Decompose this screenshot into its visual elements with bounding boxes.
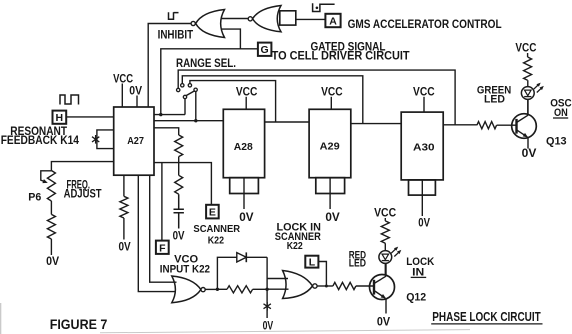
wire main bus A27 to A28 <box>154 120 223 122</box>
wire to 0V (P6 chain) <box>50 239 52 255</box>
wire L to U4 output line <box>318 262 328 288</box>
wire A27 bottom pin to resistor <box>123 175 125 196</box>
wire U3 output to junction <box>205 288 219 291</box>
svg-text:VCC: VCC <box>515 43 536 55</box>
svg-text:0V: 0V <box>239 212 254 224</box>
0V label above A27 <box>129 85 142 107</box>
text FREQ. <box>67 180 91 192</box>
connector G box <box>258 43 272 57</box>
text IN underlined <box>411 266 427 278</box>
faint scan streak left edge <box>0 303 2 334</box>
text RED <box>349 249 366 261</box>
text SCANNER <box>193 223 240 235</box>
svg-text:0V: 0V <box>129 85 142 97</box>
text LED (green) <box>484 94 505 106</box>
wire U1 output to A27 top pin <box>148 24 191 108</box>
0V label (Q13 emitter) <box>522 148 537 160</box>
text P6 <box>28 192 41 204</box>
IC A29 <box>309 109 351 177</box>
text INHIBIT <box>158 28 194 42</box>
wire diode to 0V column <box>246 257 268 318</box>
0V label (A28) <box>239 212 254 224</box>
IC A30 <box>401 112 443 180</box>
wire to 0V (A27 bottom resistor) <box>123 218 125 240</box>
NOR gate U1 (inhibit gate, faces left) <box>191 10 224 38</box>
svg-text:K22: K22 <box>208 235 224 247</box>
wire A27 left to potentiometer P6 <box>51 162 113 171</box>
resistor right of A27 (upper) <box>175 135 183 157</box>
resistor below P6 <box>47 214 55 239</box>
wire U4 output <box>317 285 333 287</box>
IC A27 <box>114 107 154 175</box>
wire A28 to 0V <box>243 178 245 209</box>
asterisk mark (VCO 0V column) <box>264 302 271 311</box>
LED D3 (green) <box>521 80 534 115</box>
svg-text:VCC: VCC <box>374 208 396 220</box>
wire tap to connector F <box>161 163 163 241</box>
text Q13 <box>546 136 567 148</box>
svg-text:INPUT K22: INPUT K22 <box>160 264 210 276</box>
capacitor in A27 chain <box>174 194 184 228</box>
range bus wire 3 (to A28-A29 segment) <box>188 81 275 122</box>
svg-text:0V: 0V <box>325 212 340 224</box>
range bus wire 2 (to A29-A30 segment) <box>181 76 363 124</box>
0V label (capacitor chain) <box>173 230 185 242</box>
svg-text:A27: A27 <box>127 135 144 147</box>
svg-text:P6: P6 <box>28 192 41 204</box>
connector E box <box>206 205 219 219</box>
svg-text:L: L <box>309 257 316 269</box>
transistor Q13 <box>512 99 537 148</box>
VCC label (green LED) <box>515 43 536 57</box>
svg-text:0V: 0V <box>173 230 185 242</box>
text OSC <box>550 98 572 110</box>
wire U1 upper input to U2 output bubble <box>221 18 249 20</box>
text LED (red) <box>349 258 366 270</box>
wire A30 to 0V <box>421 180 423 216</box>
resistor right of A27 (lower) <box>175 175 183 194</box>
wire P6 to lower resistor <box>50 201 52 214</box>
emission arrows of red LED <box>391 247 401 257</box>
svg-text:LED: LED <box>484 94 505 106</box>
svg-text:Q12: Q12 <box>406 292 426 304</box>
wire to lock gate inputs <box>267 279 288 290</box>
input block of U2 <box>280 11 296 25</box>
wire main bus A30 to Q13 resistor <box>443 124 477 126</box>
text TO CELL DRIVER CIRCUIT <box>272 49 411 63</box>
wire switch arm to main bus <box>194 92 197 123</box>
IC A28 <box>223 109 264 177</box>
range bus wire 1 (to A30 right segment) <box>177 70 456 125</box>
faint scan streak bottom <box>100 330 470 333</box>
feedback loop on A27 left edge <box>97 130 114 149</box>
text K22 (scanner) <box>208 235 224 247</box>
asterisk mark on feedback loop <box>92 135 99 144</box>
text ON underlined <box>553 107 568 119</box>
svg-text:TO CELL DRIVER CIRCUIT: TO CELL DRIVER CIRCUIT <box>272 49 411 63</box>
svg-text:GMS ACCELERATOR CONTROL: GMS ACCELERATOR CONTROL <box>348 17 502 31</box>
text FEEDBACK K14 <box>1 135 80 147</box>
potentiometer P6 <box>41 171 56 201</box>
VCC label above A29 <box>321 86 343 109</box>
svg-text:ON: ON <box>554 107 568 119</box>
wire main bus A28 to A29 <box>265 121 310 123</box>
pulse waveform label at connector A <box>313 3 335 11</box>
connector H box <box>53 111 67 125</box>
svg-text:VCC: VCC <box>236 86 258 98</box>
svg-text:A29: A29 <box>320 141 340 153</box>
text INPUT K22 <box>160 264 210 276</box>
svg-text:0V: 0V <box>377 317 390 329</box>
resistor above red LED <box>381 221 389 243</box>
svg-text:VCC: VCC <box>113 73 133 85</box>
svg-text:ADJUST: ADJUST <box>64 189 102 201</box>
svg-text:0V: 0V <box>522 148 537 160</box>
svg-text:0V: 0V <box>46 256 59 268</box>
0V label (A30) <box>418 218 430 230</box>
svg-text:VCC: VCC <box>413 86 435 98</box>
VCC label above A27 <box>113 73 133 107</box>
bottom tab of A30 <box>409 180 436 195</box>
svg-text:VCC: VCC <box>321 86 343 98</box>
range selector switch arm <box>183 88 197 99</box>
svg-text:INHIBIT: INHIBIT <box>158 28 194 42</box>
resistor in VCO output line <box>217 286 267 293</box>
svg-text:A28: A28 <box>234 141 253 153</box>
svg-text:Q13: Q13 <box>546 136 567 148</box>
wire A27 to VCO gate lower input <box>138 175 176 291</box>
wire U2 block to connector A <box>296 18 325 20</box>
wire A27 to VCO gate upper input <box>150 175 177 282</box>
diode D1 <box>237 252 247 262</box>
svg-text:H: H <box>56 112 64 124</box>
svg-text:F: F <box>159 242 166 254</box>
text LOCK IN <box>277 222 321 234</box>
resistor below A27 <box>120 196 128 218</box>
emission arrows of green LED <box>534 83 544 93</box>
wire junction up to diode branch <box>217 257 236 289</box>
svg-text:0V: 0V <box>119 242 131 254</box>
text LOCK (lock in label) <box>406 256 434 268</box>
svg-text:IN: IN <box>412 266 424 278</box>
0V label (A29) <box>325 212 340 224</box>
connector L box <box>305 256 318 269</box>
resistor to Q12 base <box>333 282 374 289</box>
connector F box <box>156 241 169 255</box>
NOR gate U3 (VCO input) <box>172 276 205 303</box>
connector A box <box>325 14 340 28</box>
wire H to A27 left <box>66 116 114 118</box>
text RESONANT <box>10 126 67 138</box>
svg-text:FEEDBACK K14: FEEDBACK K14 <box>1 135 80 147</box>
resistor to Q13 base <box>477 122 517 129</box>
svg-text:FIGURE 7: FIGURE 7 <box>50 316 108 332</box>
0V label (VCO column) <box>263 321 274 333</box>
VCC label above A28 <box>236 86 258 109</box>
svg-text:LED: LED <box>349 258 366 270</box>
text Q12 <box>406 292 426 304</box>
svg-text:0V: 0V <box>418 218 430 230</box>
0V label (A27 bottom resistor) <box>119 242 131 254</box>
svg-text:E: E <box>209 207 216 219</box>
text GMS ACCELERATOR CONTROL <box>348 17 502 31</box>
LED D2 (red) <box>379 243 392 274</box>
svg-text:0V: 0V <box>263 321 274 333</box>
svg-text:A30: A30 <box>413 142 435 154</box>
VCC label above A30 <box>413 86 435 112</box>
bottom tab of A28 <box>230 178 259 194</box>
svg-text:K22: K22 <box>287 240 303 252</box>
text ADJUST <box>64 189 102 201</box>
bottom tab of A29 <box>316 178 345 194</box>
wire resistor junction <box>178 157 180 176</box>
text GATED SIGNAL <box>311 39 386 53</box>
text SCANNER (lock) <box>275 231 321 243</box>
resistor above green LED <box>524 57 532 80</box>
wire switch pivot to A27 right pin <box>154 99 185 115</box>
text RANGE SEL. <box>176 56 236 70</box>
text K22 (lock) <box>287 240 303 252</box>
text FIGURE 7 <box>50 316 108 332</box>
0V label (Q12 emitter) <box>377 317 390 329</box>
wire U1 lower input to G net <box>221 29 240 49</box>
text PHASE LOCK CIRCUIT underlined <box>431 310 542 324</box>
NOR gate U2 (faces left) <box>248 6 281 32</box>
wire main bus A29 to A30 <box>351 123 401 125</box>
pulse waveform label at U1 output <box>169 12 179 19</box>
VCC label (red LED) <box>374 208 396 221</box>
wire A27 right pin to resistor chain <box>154 128 179 135</box>
svg-text:A: A <box>329 16 337 28</box>
NOR gate U4 (lock in) <box>283 271 317 299</box>
text VCO <box>174 253 198 265</box>
transistor Q12 <box>370 264 395 314</box>
pulse waveform label above H <box>60 95 79 105</box>
wire A29 to 0V <box>329 178 331 209</box>
svg-text:RANGE SEL.: RANGE SEL. <box>176 56 236 70</box>
svg-text:PHASE LOCK CIRCUIT: PHASE LOCK CIRCUIT <box>432 310 541 324</box>
0V label (P6 chain) <box>46 256 59 268</box>
wire A27 right pin to connector E <box>154 163 211 205</box>
svg-text:G: G <box>261 44 269 56</box>
wire G net to junction near A27 <box>159 49 258 117</box>
svg-text:SCANNER: SCANNER <box>193 223 240 235</box>
text GREEN <box>477 84 511 96</box>
